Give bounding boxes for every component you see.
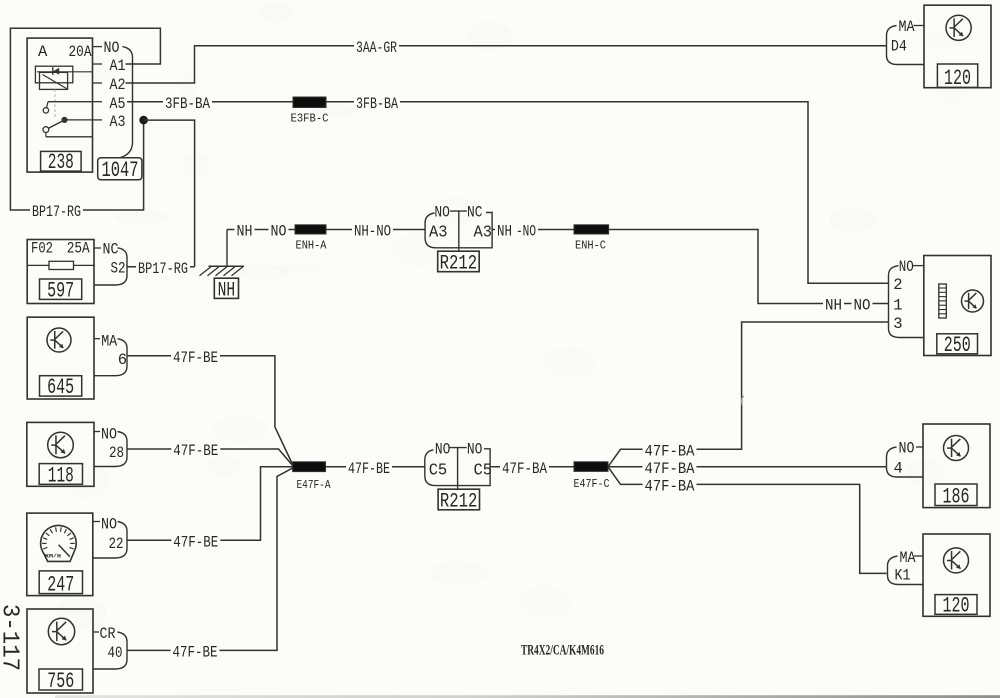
wire 3AA-GR from A2 to D4 [126, 39, 887, 83]
svg-text:D4: D4 [891, 37, 907, 55]
svg-text:40: 40 [108, 644, 123, 662]
svg-text:A3: A3 [474, 224, 493, 243]
250 pin 2 [893, 276, 902, 294]
svg-text:ENH-C: ENH-C [575, 239, 606, 252]
svg-text:A: A [38, 43, 48, 61]
relay internal dashed link [54, 89, 56, 118]
svg-text:CR: CR [100, 625, 116, 643]
756 pin CR [93, 625, 116, 643]
svg-text:E47F-C: E47F-C [574, 478, 610, 491]
svg-text:BP17-RG: BP17-RG [138, 260, 188, 278]
svg-text:-NO: -NO [516, 223, 536, 241]
connector R212 lower (pins C5/C5, NO/NO) [425, 440, 492, 485]
svg-text:47F-BE: 47F-BE [173, 644, 218, 662]
component id label 120 bottom [935, 594, 977, 619]
wire 47F-BE from 118 to splice E47F-A [127, 442, 293, 465]
wire 47F-BE from 645 to splice E47F-A [127, 349, 293, 465]
120 bottom pin K1 [895, 567, 911, 585]
fuse component 597 box [27, 240, 94, 304]
247 pin 22 [109, 535, 124, 553]
250 pin 1 [893, 296, 902, 314]
svg-text:NH-NO: NH-NO [354, 223, 391, 241]
250 pin 3 [893, 315, 902, 333]
wire NH-NO to splice ENH-A [227, 223, 295, 241]
120 bottom connector bracket [888, 556, 924, 585]
splice E47F-A [293, 462, 331, 492]
connector label 1047 [98, 158, 142, 183]
svg-text:3: 3 [893, 315, 902, 333]
splice ENH-A [295, 225, 327, 253]
svg-text:28: 28 [109, 444, 124, 462]
svg-text:NO: NO [899, 440, 915, 458]
component 186 clock symbol [944, 436, 969, 461]
svg-text:F02: F02 [31, 239, 53, 257]
wire NH-NO from ENH-A to R212 [326, 223, 425, 241]
120 bottom pin MA [900, 549, 924, 567]
component 120 top clock symbol [946, 15, 971, 40]
component 247 speedometer symbol [41, 525, 77, 561]
svg-text:247: 247 [47, 572, 74, 597]
relay component 238 box [27, 38, 92, 172]
component id label 247 [39, 571, 82, 597]
relay rating label A 20A [38, 43, 92, 61]
120 top pin MA [899, 18, 925, 36]
svg-text:47F-BA: 47F-BA [645, 478, 696, 496]
svg-text:2: 2 [893, 276, 902, 294]
svg-text:NO: NO [101, 426, 117, 444]
splice E3FB-C [291, 97, 329, 126]
wire 47F-BA to pin 4 of 186 [608, 460, 887, 478]
645 pin 6 [118, 351, 127, 369]
186 connector bracket [887, 447, 924, 477]
svg-text:MA: MA [899, 18, 916, 36]
diagram variant label TR4X2/CA/K4M616 [521, 643, 604, 659]
250 pin NO [899, 258, 924, 276]
ground label NH [214, 278, 238, 302]
svg-text:NO: NO [271, 223, 287, 241]
wire 47F-BE from 756 to splice E47F-A [127, 468, 293, 662]
component id label 250 [937, 333, 978, 358]
svg-text:NO: NO [899, 258, 914, 276]
wire ENH-C to pin 1 of 250 [609, 230, 889, 315]
svg-text:120: 120 [943, 594, 970, 619]
svg-text:NH: NH [497, 223, 512, 241]
component 645 clock symbol [47, 328, 71, 352]
svg-text:756: 756 [47, 669, 74, 694]
fuse rating label F02 25A [31, 239, 90, 257]
118 connector bracket [94, 432, 127, 467]
svg-text:238: 238 [48, 150, 74, 175]
component 118 clock symbol [48, 432, 74, 458]
fuse pin S2 [111, 260, 126, 278]
svg-text:A3: A3 [110, 113, 126, 131]
186 pin NO [899, 440, 924, 458]
svg-text:NO: NO [854, 297, 871, 315]
svg-text:47F-BA: 47F-BA [645, 443, 696, 461]
component 120 top box [924, 5, 991, 88]
svg-text:47F-BE: 47F-BE [173, 533, 218, 551]
wire 47F-BE from 247 to splice E47F-A [127, 467, 293, 552]
component id label 186 [935, 484, 977, 510]
wire 47F-BA fan to pin 3 of 250 [608, 322, 889, 467]
ground NH symbol [200, 230, 245, 276]
component 186 box [923, 424, 990, 508]
247 connector bracket [93, 522, 127, 559]
splice ENH-C [574, 225, 609, 253]
fuse symbol [27, 261, 94, 269]
page reference 3-117 [0, 604, 23, 671]
svg-text:1: 1 [893, 296, 902, 314]
645 pin MA [94, 333, 118, 351]
svg-text:47F-BA: 47F-BA [502, 460, 548, 478]
connector R212 upper (pins A3/A3, NO/NC) [425, 204, 492, 248]
relay switch contacts [43, 102, 93, 137]
svg-text:NH: NH [825, 297, 842, 315]
svg-text:6: 6 [118, 351, 127, 369]
118 pin 28 [109, 444, 124, 462]
118 pin NO [94, 426, 117, 444]
svg-text:A5: A5 [110, 95, 126, 113]
645 connector bracket [94, 339, 127, 376]
svg-text:3FB-BA: 3FB-BA [356, 95, 399, 113]
svg-text:R212: R212 [440, 491, 478, 514]
relay pin A1 [93, 57, 126, 75]
bottom border [55, 695, 1000, 698]
relay id label 238 [41, 150, 82, 175]
svg-text:NO: NO [435, 440, 451, 458]
svg-text:C5: C5 [474, 461, 493, 480]
wire 47F-BE from E47F-A to R212 [326, 460, 425, 478]
connector id R212 upper [438, 248, 480, 276]
120 top pin D4 [891, 37, 907, 55]
svg-text:MA: MA [101, 333, 118, 351]
svg-text:47F-BE: 47F-BE [173, 349, 218, 367]
svg-text:K1: K1 [895, 567, 911, 585]
svg-text:597: 597 [47, 278, 74, 303]
relay pin NO [93, 39, 120, 57]
relay pin A3 [93, 113, 126, 131]
svg-text:E47F-A: E47F-A [297, 479, 331, 492]
component 118 box [27, 422, 94, 486]
756 pin 40 [108, 644, 123, 662]
svg-text:C5: C5 [429, 461, 448, 480]
wire 47F-BA to pin K1 of 120 [608, 467, 887, 574]
scan artifact curl near pin3 riser [742, 396, 744, 406]
svg-text:47F-BE: 47F-BE [173, 442, 218, 460]
fuse connector bracket [94, 248, 127, 285]
component 250 coil symbol [939, 284, 947, 318]
component id label 645 [40, 375, 82, 400]
component 247 box [27, 513, 93, 596]
svg-text:NO: NO [467, 440, 483, 458]
component 120 bottom clock symbol [944, 548, 969, 573]
svg-text:NH: NH [218, 279, 236, 302]
svg-text:NC: NC [103, 241, 119, 259]
svg-text:ENH-A: ENH-A [296, 239, 327, 252]
fuse id label 597 [40, 278, 82, 303]
component 120 bottom box [923, 534, 990, 616]
svg-text:NH: NH [237, 223, 253, 241]
component id label 756 [39, 669, 83, 694]
wire junction to fuse S2 riser [144, 120, 195, 267]
120 top connector bracket [887, 26, 925, 65]
247 pin NO [93, 516, 117, 534]
component id label 120 top [937, 64, 977, 91]
connector 1047 bracket [120, 47, 133, 158]
svg-text:BP17-RG: BP17-RG [32, 203, 81, 221]
svg-text:S2: S2 [111, 260, 126, 278]
svg-text:NO: NO [104, 39, 120, 57]
250 connector bracket [889, 266, 924, 338]
wire 47F-BA from R212 to splice E47F-C [490, 460, 574, 478]
svg-text:KM/H: KM/H [45, 553, 62, 560]
svg-text:MA: MA [900, 549, 917, 567]
svg-text:1047: 1047 [102, 158, 139, 183]
component 756 box [27, 609, 93, 693]
component id label 118 [39, 463, 82, 488]
fuse pin NC [94, 241, 119, 259]
relay pin A2 [93, 76, 126, 94]
wire NH-NO from R212 to splice ENH-C [492, 223, 574, 241]
component 250 clock symbol [962, 290, 984, 312]
svg-text:22: 22 [109, 535, 124, 553]
wire 3FB-BA from splice to pin 2 of 250 [326, 95, 889, 283]
component 645 box [27, 317, 94, 399]
svg-text:250: 250 [944, 333, 971, 358]
connector id R212 lower [438, 486, 479, 514]
relay pin A5 [93, 95, 126, 113]
svg-text:4: 4 [894, 460, 903, 478]
relay coil with diode [35, 66, 92, 89]
186 pin 4 [894, 460, 903, 478]
component 756 clock symbol [48, 618, 74, 644]
svg-text:186: 186 [943, 485, 970, 510]
svg-text:NO: NO [101, 516, 117, 534]
svg-text:645: 645 [47, 375, 74, 400]
splice E47F-C [574, 462, 610, 491]
wire 3FB-BA from A5 to splice E3FB-C [127, 95, 293, 113]
component 250 box [924, 256, 991, 356]
junction node on A3 (BP17-RG) [139, 116, 148, 125]
svg-text:TR4X2/CA/K4M616: TR4X2/CA/K4M616 [521, 643, 604, 659]
svg-text:47F-BE: 47F-BE [348, 460, 390, 478]
wire BP17-RG from S2 [127, 260, 195, 278]
svg-text:47F-BA: 47F-BA [645, 460, 696, 478]
svg-text:25A: 25A [67, 239, 91, 257]
svg-text:3-117: 3-117 [0, 604, 23, 671]
756 connector bracket [93, 632, 127, 669]
svg-text:A2: A2 [110, 76, 126, 94]
wire A1 loop to BP17-RG [10, 28, 160, 221]
